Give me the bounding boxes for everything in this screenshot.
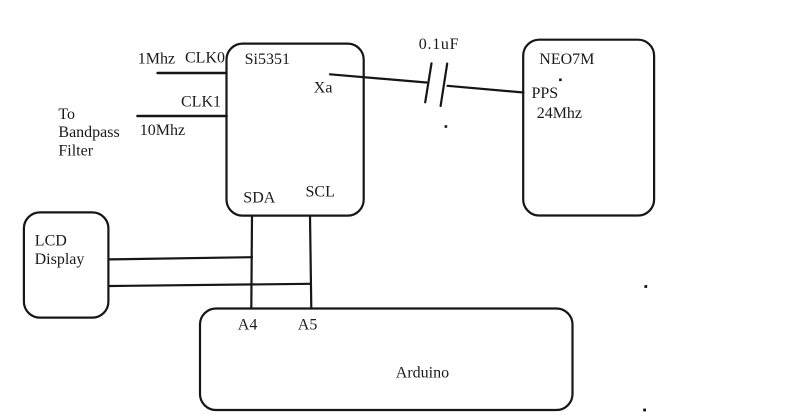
svg-text:1Mhz: 1Mhz (138, 51, 175, 68)
svg-text:Xa: Xa (314, 79, 333, 96)
svg-text:To: To (58, 106, 75, 123)
svg-text:CLK0: CLK0 (185, 50, 225, 67)
wire LCD to SDA (109, 257, 252, 259)
svg-text:Display: Display (35, 251, 85, 268)
svg-text:Filter: Filter (58, 143, 93, 160)
svg-text:24Mhz: 24Mhz (537, 105, 582, 122)
wire SCL vertical (310, 216, 311, 309)
svg-text:LCD: LCD (35, 233, 67, 250)
svg-text:A4: A4 (238, 317, 258, 334)
svg-text:Arduino: Arduino (396, 364, 449, 381)
capacitor C1 plate left (425, 63, 431, 102)
svg-text:Bandpass: Bandpass (58, 124, 119, 141)
svg-text:SCL: SCL (306, 184, 335, 201)
svg-text:A5: A5 (298, 317, 318, 334)
svg-text:PPS: PPS (532, 85, 559, 102)
svg-text:Si5351: Si5351 (245, 51, 290, 68)
svg-text:0.1uF: 0.1uF (419, 36, 459, 53)
svg-text:CLK1: CLK1 (181, 93, 221, 110)
block Arduino (200, 309, 573, 411)
block LCD display (24, 212, 109, 317)
wire LCD to SCL (110, 284, 311, 286)
junction dot below capacitor (445, 125, 448, 128)
block U1 Si5351 (227, 44, 364, 216)
junction dot right middle (644, 285, 647, 288)
svg-text:NEO7M: NEO7M (539, 51, 594, 68)
capacitor C1 plate right (441, 64, 448, 106)
junction dot bottom right (643, 409, 646, 412)
wire CLK0 (158, 72, 227, 74)
junction dot above PPS (559, 79, 562, 82)
wire SDA vertical (250, 216, 253, 309)
svg-text:10Mhz: 10Mhz (140, 122, 185, 139)
wire Xa to capacitor (330, 74, 427, 82)
wire capacitor to PPS (448, 86, 524, 93)
block U2 NEO7M (523, 40, 654, 216)
svg-text:SDA: SDA (243, 189, 275, 206)
wire CLK1 (138, 115, 227, 118)
